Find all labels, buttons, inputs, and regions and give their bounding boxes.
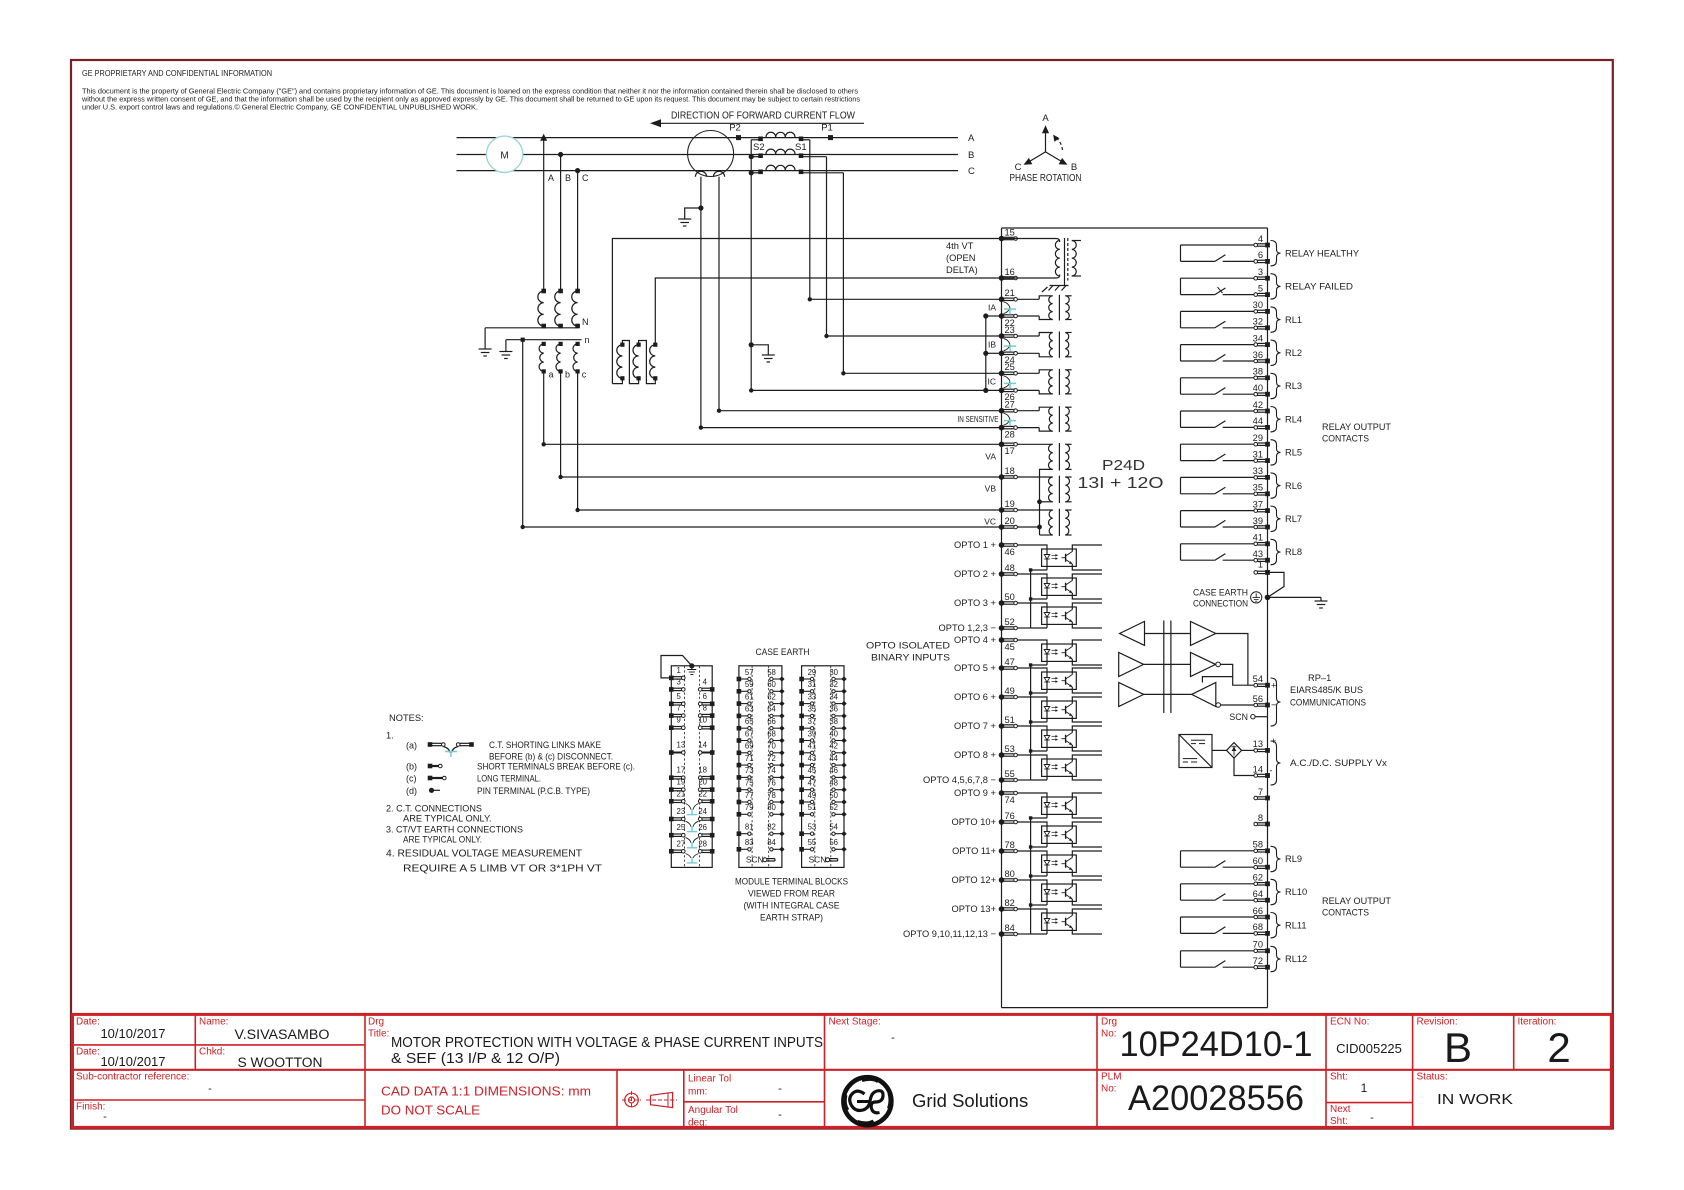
brace and label RL4 bbox=[1271, 407, 1303, 432]
opto common negative terminal 52 bbox=[939, 617, 1031, 633]
svg-text:RL12: RL12 bbox=[1285, 954, 1307, 964]
case earth connection bbox=[1193, 588, 1270, 609]
comms buffer triangle left 3 bbox=[1119, 683, 1144, 707]
svg-text:70: 70 bbox=[767, 742, 776, 751]
svg-text:27: 27 bbox=[677, 839, 686, 848]
terminal 64 bbox=[1253, 889, 1270, 903]
transformer VC bbox=[1017, 509, 1071, 536]
wire comms tx to terminal 54 bbox=[1216, 634, 1254, 686]
svg-text:CID005225: CID005225 bbox=[1336, 1041, 1402, 1056]
wire n to terminal 20 bbox=[521, 340, 1002, 530]
note a symbol and text bbox=[406, 740, 613, 762]
svg-text:53: 53 bbox=[808, 823, 817, 832]
module terminal block 1 bbox=[661, 656, 715, 868]
svg-text:GE PROPRIETARY AND CONFIDENTIA: GE PROPRIETARY AND CONFIDENTIAL INFORMAT… bbox=[82, 68, 272, 78]
terminal 72 bbox=[1253, 956, 1270, 970]
svg-text:1: 1 bbox=[677, 666, 681, 675]
svg-text:RL1: RL1 bbox=[1285, 315, 1302, 325]
svg-text:OPTO 7 +: OPTO 7 + bbox=[954, 721, 996, 731]
terminal 62 bbox=[1253, 873, 1270, 887]
svg-text:CONTACTS: CONTACTS bbox=[1322, 434, 1369, 444]
svg-text:OPTO 1,2,3 −: OPTO 1,2,3 − bbox=[939, 623, 996, 633]
svg-text:4. RESIDUAL VOLTAGE MEASURE: 4. RESIDUAL VOLTAGE MEASUREMENT bbox=[386, 849, 582, 860]
svg-text:44: 44 bbox=[1253, 416, 1263, 426]
VT primary winding C bbox=[572, 289, 580, 329]
terminal 20 bbox=[999, 516, 1018, 530]
opto coupler input 82 bbox=[951, 898, 1102, 934]
svg-text:BEFORE (b) & (c) DISCONNECT.: BEFORE (b) & (c) DISCONNECT. bbox=[489, 752, 613, 762]
svg-text:45: 45 bbox=[808, 766, 817, 775]
wire comms rx to terminal 56 bbox=[1221, 704, 1254, 706]
svg-text:74: 74 bbox=[767, 766, 776, 775]
svg-text:B: B bbox=[565, 173, 571, 183]
svg-text:14: 14 bbox=[698, 741, 707, 750]
svg-text:C: C bbox=[582, 173, 589, 183]
svg-text:10/10/2017: 10/10/2017 bbox=[100, 1026, 165, 1041]
svg-text:51: 51 bbox=[1005, 715, 1015, 725]
CT secondary winding phase B bbox=[751, 149, 826, 158]
svg-text:RELAY FAILED: RELAY FAILED bbox=[1285, 282, 1353, 292]
svg-text:16: 16 bbox=[1005, 267, 1015, 277]
svg-text:49: 49 bbox=[808, 791, 817, 800]
svg-text:43: 43 bbox=[808, 754, 817, 763]
wire CT S1-A to terminal 21 bbox=[809, 140, 811, 299]
relay output contact RELAY FAILED bbox=[1181, 278, 1254, 294]
svg-text:21: 21 bbox=[1005, 288, 1015, 298]
wire VT common to terminal 20 bbox=[1017, 525, 1042, 530]
opto coupler input 74 bbox=[954, 788, 1102, 818]
svg-text:69: 69 bbox=[745, 742, 754, 751]
svg-text:OPTO 5 +: OPTO 5 + bbox=[954, 663, 996, 673]
svg-text:33: 33 bbox=[1253, 466, 1263, 476]
title block CAD note bbox=[381, 1084, 591, 1118]
svg-text:56: 56 bbox=[1253, 694, 1263, 704]
comms buffer triangle right 1 bbox=[1191, 621, 1216, 645]
svg-text:Date:: Date: bbox=[76, 1047, 100, 1058]
wire phase B bus bbox=[457, 154, 959, 156]
transformer VA bbox=[1017, 443, 1071, 535]
svg-text:EARTH STRAP): EARTH STRAP) bbox=[760, 913, 823, 923]
svg-text:PLM: PLM bbox=[1101, 1072, 1122, 1083]
svg-text:Title:: Title: bbox=[368, 1029, 389, 1040]
svg-text:42: 42 bbox=[829, 742, 838, 751]
svg-text:CONTACTS: CONTACTS bbox=[1322, 908, 1369, 918]
open delta VT winding 2 bbox=[633, 343, 641, 381]
svg-text:Next: Next bbox=[1330, 1104, 1351, 1115]
svg-text:VA: VA bbox=[985, 452, 996, 462]
svg-text:23: 23 bbox=[677, 807, 686, 816]
svg-text:65: 65 bbox=[745, 717, 754, 726]
svg-text:COMMUNICATIONS: COMMUNICATIONS bbox=[1290, 698, 1366, 708]
svg-text:B: B bbox=[1444, 1024, 1472, 1071]
svg-text:72: 72 bbox=[1253, 956, 1263, 966]
motor CT earth bbox=[678, 205, 703, 226]
svg-text:62: 62 bbox=[1253, 873, 1263, 883]
svg-text:19: 19 bbox=[1005, 499, 1015, 509]
opto coupler input 51 bbox=[954, 715, 1102, 751]
svg-text:Grid Solutions: Grid Solutions bbox=[912, 1090, 1028, 1111]
svg-text:Drg: Drg bbox=[1101, 1017, 1117, 1028]
opto common negative terminal 55 bbox=[923, 769, 1031, 785]
svg-text:Name:: Name: bbox=[199, 1017, 228, 1028]
svg-text:NOTES:: NOTES: bbox=[389, 713, 424, 723]
svg-text:22: 22 bbox=[698, 789, 707, 798]
svg-text:23: 23 bbox=[1005, 325, 1015, 335]
svg-text:78: 78 bbox=[767, 791, 776, 800]
svg-text:SHORT TERMINALS BREAK BEFORE (: SHORT TERMINALS BREAK BEFORE (c). bbox=[477, 762, 635, 772]
brace and label RL6 bbox=[1271, 473, 1303, 498]
svg-text:(WITH INTEGRAL CASE: (WITH INTEGRAL CASE bbox=[744, 901, 840, 911]
svg-text:C: C bbox=[1015, 162, 1022, 173]
svg-text:35: 35 bbox=[1253, 483, 1263, 493]
svg-text:47: 47 bbox=[1005, 657, 1015, 667]
bridge rectifier bbox=[1227, 743, 1242, 758]
svg-text:-: - bbox=[208, 1083, 212, 1095]
transformer IA bbox=[1017, 295, 1071, 321]
svg-text:14: 14 bbox=[1253, 764, 1263, 774]
svg-text:39: 39 bbox=[808, 729, 817, 738]
svg-text:58: 58 bbox=[1253, 840, 1263, 850]
terminal 22 bbox=[999, 313, 1018, 328]
title block ecn cell bbox=[1330, 1017, 1402, 1057]
svg-text:6: 6 bbox=[703, 692, 707, 701]
title block revision cell bbox=[1417, 1017, 1473, 1072]
label 4th VT open delta bbox=[946, 241, 978, 275]
svg-text:19: 19 bbox=[677, 778, 686, 787]
svg-text:-: - bbox=[103, 1111, 107, 1123]
transformer IC bbox=[1017, 369, 1071, 395]
terminal 26 bbox=[999, 388, 1018, 403]
svg-text:82: 82 bbox=[1005, 898, 1015, 908]
svg-text:28: 28 bbox=[1005, 429, 1015, 439]
svg-text:P2: P2 bbox=[729, 123, 741, 134]
svg-text:-: - bbox=[1370, 1112, 1374, 1124]
input labels IA IB IC IN VA VB VC bbox=[958, 303, 999, 527]
svg-text:83: 83 bbox=[745, 838, 754, 847]
note 4 text bbox=[386, 849, 602, 875]
wire to terminal 23 bbox=[824, 334, 1001, 338]
svg-text:13: 13 bbox=[677, 741, 686, 750]
relay output contact RL6 bbox=[1181, 477, 1254, 493]
svg-text:50: 50 bbox=[829, 791, 838, 800]
svg-text:S WOOTTON: S WOOTTON bbox=[238, 1055, 323, 1070]
title block drawing title bbox=[368, 1017, 823, 1068]
svg-text:RL8: RL8 bbox=[1285, 547, 1302, 557]
terminal 25 bbox=[999, 362, 1018, 376]
power supply unit bbox=[1179, 735, 1212, 768]
svg-text:(a): (a) bbox=[406, 741, 417, 751]
svg-text:32: 32 bbox=[829, 680, 838, 689]
svg-text:25: 25 bbox=[677, 823, 686, 832]
terminal 35 bbox=[1253, 483, 1270, 497]
label relay output contacts lower bbox=[1322, 896, 1391, 918]
svg-text:N: N bbox=[582, 317, 589, 327]
svg-text:3: 3 bbox=[677, 677, 681, 686]
svg-text:IA: IA bbox=[988, 303, 996, 313]
svg-text:49: 49 bbox=[1005, 686, 1015, 696]
brace and label RELAY FAILED bbox=[1271, 274, 1354, 299]
svg-text:51: 51 bbox=[808, 803, 817, 812]
svg-text:37: 37 bbox=[1253, 499, 1263, 509]
title block drg no cell bbox=[1101, 1017, 1313, 1065]
svg-text:RELAY HEALTHY: RELAY HEALTHY bbox=[1285, 248, 1359, 258]
opto coupler input 53 bbox=[954, 744, 1102, 780]
module terminal blocks caption bbox=[735, 877, 848, 923]
svg-text:OPTO 8 +: OPTO 8 + bbox=[954, 750, 996, 760]
title block grid bbox=[73, 1014, 1612, 1127]
svg-text:Drg: Drg bbox=[368, 1017, 384, 1028]
svg-text:a: a bbox=[549, 370, 554, 380]
node phase B tap junction bbox=[558, 152, 563, 291]
svg-text:IN WORK: IN WORK bbox=[1437, 1091, 1513, 1108]
svg-text:76: 76 bbox=[767, 779, 776, 788]
notes heading bbox=[386, 713, 424, 741]
svg-text:35: 35 bbox=[808, 705, 817, 714]
svg-text:OPTO 9,10,11,12,13 −: OPTO 9,10,11,12,13 − bbox=[903, 929, 996, 939]
svg-text:58: 58 bbox=[767, 668, 776, 677]
note b symbol and text bbox=[406, 762, 635, 772]
svg-text:40: 40 bbox=[829, 729, 838, 738]
opto coupler input 47 bbox=[954, 657, 1102, 693]
svg-text:18: 18 bbox=[1005, 466, 1015, 476]
opto isolated binary inputs labels bbox=[866, 641, 950, 663]
svg-text:42: 42 bbox=[1253, 400, 1263, 410]
svg-text:RP–1: RP–1 bbox=[1308, 673, 1331, 683]
svg-text:SCN: SCN bbox=[746, 855, 764, 865]
CT shorting link IN bbox=[1004, 413, 1017, 426]
svg-text:OPTO ISOLATED: OPTO ISOLATED bbox=[866, 641, 950, 651]
comms buffer triangle right 3 bbox=[1192, 683, 1221, 708]
open delta VT winding 1 bbox=[617, 343, 625, 381]
opto coupler input 48 bbox=[954, 563, 1102, 599]
svg-text:44: 44 bbox=[829, 754, 838, 763]
svg-text:8: 8 bbox=[1258, 813, 1263, 823]
svg-text:P24D: P24D bbox=[1102, 458, 1145, 474]
wire comms enable hook bbox=[1202, 677, 1232, 683]
svg-text:S1: S1 bbox=[795, 142, 807, 153]
wire terminal 22 24 26 common bus bbox=[983, 313, 1001, 393]
svg-text:Date:: Date: bbox=[76, 1017, 100, 1028]
relay output contact RL7 bbox=[1181, 511, 1254, 527]
terminal 6 bbox=[1254, 250, 1270, 264]
brace and label RL10 bbox=[1271, 879, 1308, 904]
svg-text:3: 3 bbox=[1258, 267, 1263, 277]
svg-text:26: 26 bbox=[698, 823, 707, 832]
svg-text:RL7: RL7 bbox=[1285, 514, 1302, 524]
svg-text:BINARY INPUTS: BINARY INPUTS bbox=[871, 653, 950, 663]
terminal 42 bbox=[1253, 400, 1270, 414]
CT secondary winding phase C bbox=[751, 165, 843, 174]
terminal 36 bbox=[1253, 350, 1270, 364]
brace and label RL8 bbox=[1271, 539, 1303, 564]
svg-text:78: 78 bbox=[1005, 840, 1015, 850]
svg-text:C.T. SHORTING LINKS MAKE: C.T. SHORTING LINKS MAKE bbox=[489, 740, 601, 750]
svg-text:84: 84 bbox=[767, 838, 776, 847]
svg-text:OPTO 13+: OPTO 13+ bbox=[951, 904, 996, 914]
svg-text:60: 60 bbox=[1253, 856, 1263, 866]
svg-text:59: 59 bbox=[745, 680, 754, 689]
terminal 33 bbox=[1253, 466, 1270, 480]
svg-text:39: 39 bbox=[1253, 516, 1263, 526]
svg-text:A: A bbox=[548, 173, 554, 183]
svg-text:No:: No: bbox=[1101, 1084, 1117, 1095]
svg-text:8: 8 bbox=[703, 704, 707, 713]
wire open delta to terminal 15 bbox=[612, 239, 1001, 384]
title block sht cells bbox=[1330, 1072, 1374, 1128]
wire to terminal 21 bbox=[808, 297, 1002, 301]
svg-text:Linear Tol: Linear Tol bbox=[688, 1074, 731, 1085]
brace and label RL12 bbox=[1271, 946, 1308, 971]
svg-text:RELAY OUTPUT: RELAY OUTPUT bbox=[1322, 422, 1391, 432]
svg-text:10: 10 bbox=[698, 716, 707, 725]
svg-text:70: 70 bbox=[1253, 940, 1263, 950]
svg-text:64: 64 bbox=[767, 705, 776, 714]
wire phase C bus bbox=[457, 170, 959, 172]
svg-text:1: 1 bbox=[1361, 1081, 1368, 1095]
svg-text:62: 62 bbox=[767, 692, 776, 701]
svg-text:No:: No: bbox=[1101, 1029, 1117, 1040]
relay output contact RL4 bbox=[1181, 411, 1254, 427]
transformer VB bbox=[1017, 476, 1071, 504]
projection symbol bbox=[622, 1091, 677, 1109]
svg-text:IN SENSITIVE: IN SENSITIVE bbox=[958, 415, 999, 424]
svg-text:-: - bbox=[778, 1109, 782, 1121]
svg-text:82: 82 bbox=[767, 823, 776, 832]
svg-text:30: 30 bbox=[1253, 300, 1263, 310]
svg-text:-: - bbox=[778, 1083, 782, 1095]
CT shorting link IA bbox=[1004, 302, 1017, 315]
terminal 58 bbox=[1253, 840, 1270, 854]
relay output contact RL8 bbox=[1181, 544, 1254, 560]
title block next stage cell bbox=[829, 1017, 896, 1045]
svg-text:36: 36 bbox=[829, 705, 838, 714]
svg-text:73: 73 bbox=[745, 766, 754, 775]
title block plm no cell bbox=[1101, 1072, 1304, 1119]
svg-text:(b): (b) bbox=[406, 762, 417, 772]
brace and label RELAY HEALTHY bbox=[1271, 241, 1360, 266]
brace and label RL7 bbox=[1271, 506, 1303, 531]
relay output contact RL5 bbox=[1181, 444, 1254, 460]
terminal 4 bbox=[1254, 234, 1270, 248]
svg-text:OPTO 1 +: OPTO 1 + bbox=[954, 540, 996, 550]
wire a to terminal 17 bbox=[542, 371, 1002, 446]
svg-text:52: 52 bbox=[829, 803, 838, 812]
svg-text:OPTO 9 +: OPTO 9 + bbox=[954, 788, 996, 798]
terminal 38 bbox=[1253, 367, 1270, 381]
svg-text:S2: S2 bbox=[753, 142, 765, 153]
relay output contact RL1 bbox=[1181, 311, 1254, 327]
svg-text:(d): (d) bbox=[406, 786, 417, 796]
terminal 66 bbox=[1253, 906, 1270, 920]
svg-text:80: 80 bbox=[767, 803, 776, 812]
terminal 5 bbox=[1254, 283, 1270, 297]
svg-text:VIEWED FROM REAR: VIEWED FROM REAR bbox=[748, 889, 835, 899]
VT primary winding A bbox=[538, 289, 546, 329]
bus phase labels A B C bbox=[968, 133, 975, 177]
svg-text:RL11: RL11 bbox=[1285, 920, 1307, 930]
svg-text:21: 21 bbox=[677, 789, 686, 798]
terminal 40 bbox=[1253, 383, 1270, 397]
svg-text:25: 25 bbox=[1005, 362, 1015, 372]
opto coupler input 80 bbox=[951, 869, 1102, 905]
svg-text:31: 31 bbox=[808, 680, 817, 689]
svg-text:OPTO 2 +: OPTO 2 + bbox=[954, 569, 996, 579]
svg-text:54: 54 bbox=[1253, 674, 1263, 684]
terminal 21 bbox=[999, 288, 1018, 302]
svg-text:DIRECTION OF FORWARD CURREN: DIRECTION OF FORWARD CURRENT FLOW bbox=[671, 110, 855, 122]
opto coupler input 46 bbox=[954, 540, 1102, 570]
wire sensitive CT right lead to terminal 27 bbox=[718, 177, 720, 411]
terminal 34 bbox=[1253, 333, 1270, 347]
wire to terminal 28 bbox=[699, 425, 1002, 429]
relay output contact RL12 bbox=[1181, 951, 1254, 967]
transformer IN sensitive bbox=[1017, 406, 1071, 432]
svg-text:30: 30 bbox=[829, 668, 838, 677]
wire sensitive CT left lead to terminal 28 bbox=[700, 177, 702, 428]
VT secondary winding b bbox=[556, 342, 570, 380]
svg-text:29: 29 bbox=[808, 668, 817, 677]
terminal 70 bbox=[1253, 940, 1270, 954]
brace and label RL11 bbox=[1271, 913, 1307, 938]
terminal 54 bbox=[1253, 674, 1277, 691]
wire bridge to terminal 13 bbox=[1242, 749, 1254, 751]
svg-text:B: B bbox=[1071, 162, 1077, 173]
wire CT S1-C to terminal 25 bbox=[842, 173, 844, 373]
module terminal block 3 bbox=[799, 666, 846, 868]
4th VT screen earth bbox=[1042, 281, 1069, 293]
terminal 41 bbox=[1253, 533, 1270, 547]
CT shorting link IB bbox=[1004, 339, 1017, 352]
svg-text:77: 77 bbox=[745, 791, 754, 800]
phase rotation symbol bbox=[1010, 113, 1082, 184]
wire comms row3 bbox=[1144, 693, 1192, 695]
open delta VT winding 3 bbox=[650, 343, 658, 381]
svg-text:ARE TYPICAL ONLY.: ARE TYPICAL ONLY. bbox=[403, 835, 482, 845]
brace and label RL9 bbox=[1271, 846, 1303, 871]
relay model label P24D bbox=[1078, 458, 1164, 492]
VT primary earth bbox=[479, 328, 492, 356]
svg-text:V.SIVASAMBO: V.SIVASAMBO bbox=[235, 1027, 330, 1042]
svg-text:CAD DATA 1:1 DIMENSIONS: mm: CAD DATA 1:1 DIMENSIONS: mm bbox=[381, 1084, 591, 1099]
svg-text:Next Stage:: Next Stage: bbox=[829, 1017, 881, 1028]
wire b to terminal 18 bbox=[558, 371, 1001, 479]
svg-text:66: 66 bbox=[1253, 906, 1263, 916]
opto coupler input 49 bbox=[954, 686, 1102, 722]
svg-text:57: 57 bbox=[745, 668, 754, 677]
svg-text:36: 36 bbox=[1253, 350, 1263, 360]
wire open delta chain bbox=[612, 341, 655, 384]
svg-text:RL6: RL6 bbox=[1285, 481, 1302, 491]
wire CT S2 common bbox=[749, 140, 754, 391]
terminal 19 bbox=[999, 499, 1018, 513]
svg-text:under U.S. export control laws: under U.S. export control laws and regul… bbox=[82, 103, 478, 112]
svg-text:45: 45 bbox=[1005, 642, 1015, 652]
svg-text:33: 33 bbox=[808, 692, 817, 701]
terminal 16 bbox=[999, 267, 1018, 281]
svg-text:13: 13 bbox=[1253, 739, 1263, 749]
svg-text:DELTA): DELTA) bbox=[946, 265, 978, 275]
svg-text:deg:: deg: bbox=[688, 1118, 707, 1129]
svg-text:64: 64 bbox=[1253, 889, 1263, 899]
relay output contact RL2 bbox=[1181, 345, 1254, 361]
svg-text:24: 24 bbox=[698, 807, 707, 816]
terminal 18 bbox=[999, 466, 1018, 480]
svg-text:18: 18 bbox=[698, 766, 707, 775]
svg-text:5: 5 bbox=[677, 692, 682, 701]
svg-text:VB: VB bbox=[985, 484, 997, 494]
svg-text:72: 72 bbox=[767, 754, 776, 763]
brace and label RL2 bbox=[1271, 340, 1303, 365]
